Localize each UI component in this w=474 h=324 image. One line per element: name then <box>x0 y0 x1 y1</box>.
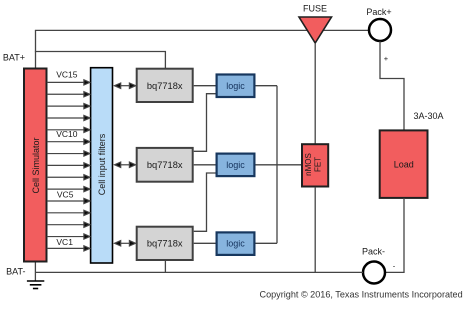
svg-text:VC10: VC10 <box>56 129 78 139</box>
block: bq7718x U3 <box>137 227 193 260</box>
svg-text:logic: logic <box>226 81 245 91</box>
wire: cell tap VC1 <box>47 246 90 251</box>
svg-text:logic: logic <box>226 239 245 249</box>
wire: cell tap VC5 <box>47 198 90 203</box>
wire: BAT- rail from Cell Simulator to Pack- <box>35 271 363 273</box>
wire: cell tap VC15 <box>47 80 90 85</box>
wire: cell tap VC13 <box>47 104 90 109</box>
wire: cell tap VC6 <box>47 187 90 192</box>
wire: Load down and over to Pack- <box>386 198 404 273</box>
wire: cell tap VC3 <box>47 222 90 227</box>
wire: bq7718x U3 bottom stub to BAT- rail <box>164 261 166 272</box>
wire: cell tap VC14 <box>47 92 90 97</box>
svg-text:FET: FET <box>314 157 323 172</box>
svg-text:VC1: VC1 <box>56 237 73 247</box>
terminal Pack+ <box>369 19 391 41</box>
svg-text:VC5: VC5 <box>57 189 74 199</box>
wire: logic 2 output to nMOS FET gate <box>256 164 303 166</box>
wire: Pack+ down and over to Load <box>380 41 404 130</box>
wire: bq7718x U1 output to logic 1 <box>194 85 216 87</box>
bidirectional wire: filters to bq7718x U1 <box>115 83 136 88</box>
block: logic 3 <box>217 232 255 255</box>
wire: cell tap VC8 <box>47 163 90 168</box>
wire: bq7718x U2 output to logic 2 <box>194 164 216 166</box>
svg-text:bq7718x: bq7718x <box>147 81 183 91</box>
wire: cell tap VC2 <box>47 234 90 239</box>
wire: BAT+ branch rail down to bq7718x U1 top <box>35 52 166 69</box>
wire: cell tap VC7 <box>47 175 90 180</box>
terminal Pack- <box>363 262 385 284</box>
wire: logic 1 second input from bq7718x U2 <box>194 94 216 152</box>
svg-text:Copyright © 2016, Texas Instru: Copyright © 2016, Texas Instruments Inco… <box>260 289 463 299</box>
svg-text:+: + <box>384 54 389 63</box>
svg-text:Pack+: Pack+ <box>366 7 391 17</box>
svg-text:VC15: VC15 <box>56 70 78 80</box>
cell tap arrows VC15..VC1 <box>47 80 90 251</box>
block: bq7718x U2 <box>137 148 193 182</box>
wire: BAT+ top rail to fuse and Pack+ <box>35 29 369 31</box>
wire: cell tap VC9 <box>47 151 90 156</box>
wire: Cell Simulator bottom stub to ground <box>34 261 36 281</box>
block: logic 1 <box>217 75 255 98</box>
svg-text:logic: logic <box>226 160 245 170</box>
svg-text:bq7718x: bq7718x <box>147 239 183 249</box>
wire: cell tap VC11 <box>47 127 90 132</box>
bidirectional wire: filters to bq7718x U2 <box>115 162 136 167</box>
wire: logic 3 output to gate bus <box>256 242 278 244</box>
block: Cell input filters <box>91 68 113 263</box>
svg-text:FUSE: FUSE <box>303 4 327 14</box>
wire: cell tap VC12 <box>47 115 90 120</box>
wire: cell tap VC4 <box>47 210 90 215</box>
svg-text:nMOS: nMOS <box>304 153 313 176</box>
svg-text:BAT+: BAT+ <box>3 53 25 63</box>
wire: nMOS FET source to BAT- rail <box>314 187 316 272</box>
svg-text:Pack-: Pack- <box>362 247 385 257</box>
ground <box>27 281 44 289</box>
wire: fuse output down to nMOS FET drain <box>314 43 316 144</box>
svg-text:Cell input filters: Cell input filters <box>97 133 107 195</box>
wire: gate bus vertical <box>276 86 278 244</box>
block: logic 2 <box>217 154 255 177</box>
load block <box>380 130 428 198</box>
wire: BAT+ riser from Cell Simulator top <box>35 30 37 68</box>
wire: cell tap VC10 <box>47 139 90 144</box>
bidirectional wire: filters to bq7718x U3 <box>115 241 136 246</box>
svg-text:BAT-: BAT- <box>6 267 25 277</box>
block: Cell Simulator <box>24 69 47 262</box>
fuse F1 <box>299 17 332 43</box>
svg-text:3A-30A: 3A-30A <box>413 111 443 121</box>
block: nMOS FET <box>302 144 328 186</box>
svg-text:bq7718x: bq7718x <box>147 160 183 170</box>
wire: logic 1 output to gate bus <box>256 85 278 87</box>
block: bq7718x U1 <box>137 69 193 102</box>
wire: bq7718x U3 output to logic 3 <box>194 242 216 244</box>
wire: logic 2 second input from bq7718x U3 <box>194 173 216 231</box>
svg-text:Cell Simulator: Cell Simulator <box>31 137 41 193</box>
svg-text:Load: Load <box>394 160 414 170</box>
